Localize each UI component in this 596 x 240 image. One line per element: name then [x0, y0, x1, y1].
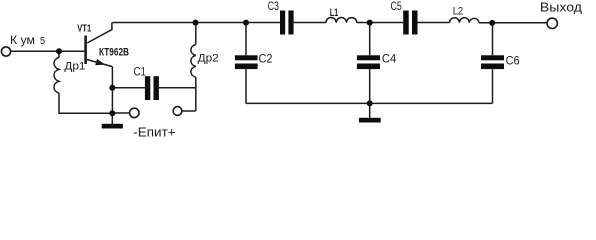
svg-text:Др1: Др1 [64, 60, 85, 72]
svg-text:-Епит+: -Епит+ [133, 125, 176, 140]
svg-text:C6: C6 [506, 53, 520, 67]
svg-text:L1: L1 [330, 7, 339, 19]
svg-text:L2: L2 [453, 6, 464, 18]
svg-text:C5: C5 [391, 1, 402, 13]
svg-text:5: 5 [40, 36, 45, 47]
svg-text:C3: C3 [268, 1, 279, 13]
svg-text:C2: C2 [259, 51, 273, 65]
svg-text:C1: C1 [134, 67, 147, 79]
svg-text:КТ962В: КТ962В [99, 46, 129, 58]
svg-text:Выход: Выход [540, 0, 582, 15]
svg-text:К ум: К ум [10, 35, 35, 47]
svg-text:Др2: Др2 [198, 52, 219, 64]
svg-text:C4: C4 [382, 51, 397, 65]
svg-text:VT1: VT1 [77, 23, 91, 34]
